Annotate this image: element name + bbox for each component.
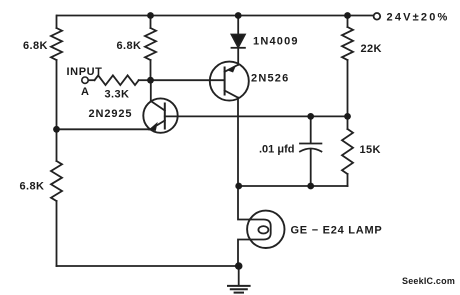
svg-text:22K: 22K [361, 43, 382, 55]
diode 1N4009 [232, 16, 245, 65]
svg-text:15K: 15K [360, 144, 381, 156]
svg-text:GE − E24 LAMP: GE − E24 LAMP [291, 225, 383, 237]
resistor 6.8K (lower left) [51, 161, 62, 201]
transistor Q1 2N526 [210, 62, 249, 101]
svg-text:3.3K: 3.3K [105, 89, 130, 101]
wire left rail (divider tap to bottom rail) [56, 129, 58, 266]
ground [228, 266, 250, 293]
wire Q2 collector line [165, 115, 348, 117]
svg-text:INPUT: INPUT [67, 66, 103, 78]
junction ground node [235, 262, 243, 270]
wire pull-up resistor to input node [150, 16, 152, 81]
resistor 3.3K [95, 75, 139, 85]
supply terminal 24V [374, 13, 381, 20]
wire 3.3K to node B [139, 79, 151, 81]
resistor 6.8K (upper left) [51, 28, 62, 60]
svg-text:2N526: 2N526 [251, 73, 289, 85]
junction top rail / 22K [344, 12, 351, 19]
resistor 15K [342, 129, 353, 174]
transistor Q2 2N2925 [143, 98, 177, 132]
junction top rail / pull-up [147, 12, 154, 19]
svg-text:SeekIC.com: SeekIC.com [402, 276, 455, 286]
resistor 6.8K (base pull-up) [145, 28, 156, 60]
wire left rail (top segment to divider tap) [56, 16, 58, 130]
svg-text:6.8K: 6.8K [23, 40, 48, 52]
svg-text:A: A [81, 86, 89, 98]
wire 22K leads [347, 16, 349, 117]
wire bottom rail [57, 265, 239, 267]
wire Q2 emitter to divider tap [57, 128, 151, 130]
svg-text:1N4009: 1N4009 [253, 36, 299, 48]
svg-text:6.8K: 6.8K [117, 40, 142, 52]
junction lamp node [235, 183, 242, 190]
wire node B to Q1 base [151, 79, 225, 81]
junction collector line / capacitor [307, 113, 314, 120]
svg-text:2N2925: 2N2925 [89, 108, 133, 120]
junction top rail / diode [235, 12, 242, 19]
capacitor .01 ufd [300, 116, 321, 186]
wire bottom RC line [239, 185, 348, 187]
junction collector line / 22K-15K [344, 113, 351, 120]
wire Q1 collector down to lamp node [237, 98, 239, 186]
junction node B [147, 77, 154, 84]
wire node B down to Q2 base [150, 80, 152, 101]
wire input terminal to 3.3K [88, 79, 94, 81]
lamp GE-E24 [238, 186, 285, 266]
wire top supply rail [57, 15, 374, 17]
input terminal A [82, 77, 88, 83]
svg-text:.01 μfd: .01 μfd [259, 144, 294, 156]
svg-text:24V±20%: 24V±20% [387, 12, 450, 24]
svg-text:6.8K: 6.8K [20, 181, 45, 193]
junction divider tap [53, 126, 60, 133]
resistor 22K [342, 27, 353, 60]
junction RC bottom / capacitor [307, 183, 314, 190]
wire 15K leads [347, 116, 349, 186]
